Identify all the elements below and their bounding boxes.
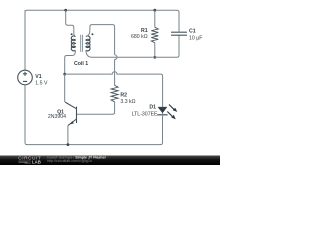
transformer core lines [81,35,83,52]
wire: rail2 from R1 to C1 bottom lead [155,35,179,57]
wire: collector feed from junction down to Q1 [64,74,66,102]
svg-text:10 µF: 10 µF [189,35,202,41]
node: junction rail3 / collector feed [63,73,66,76]
D1 cathode bar [157,114,167,116]
wire: left vertical from top rail to V1 [24,10,26,70]
svg-text:R2: R2 [120,93,127,99]
CircuitLab logo [18,156,41,165]
footer text [47,156,107,164]
wire: vertical hop over rail2 then down to R2 [115,55,117,86]
phase dot left [71,33,73,35]
inductor: transformer left winding [71,36,75,51]
svg-text:3.3 kΩ: 3.3 kΩ [120,99,135,105]
svg-text:V1: V1 [35,74,41,80]
svg-text:680 kΩ: 680 kΩ [131,34,148,40]
D1 emission arrows [167,105,177,120]
wire: D1 mid lead [162,103,164,117]
node: junction top rail / coil left lead [64,9,67,12]
voltage source V1 [18,70,33,85]
node: junction bottom rail / emitter [67,143,70,146]
wire: C1 top lead [178,14,180,32]
svg-text:R1: R1 [141,28,148,34]
wire: top rail from V1 corner to C1 corner [25,10,179,18]
svg-text:2N3904: 2N3904 [48,114,66,120]
wire: coil left top lead [66,10,76,36]
Q1 bar [76,107,78,123]
svg-text:Coil 1: Coil 1 [74,61,88,67]
svg-text:LAB: LAB [32,159,41,164]
capacitor C1 [171,32,187,35]
wire: R1 top lead [154,10,156,27]
Q1 collector diagonal [65,102,76,109]
svg-text:http://circuitlab.com/c/g5g2u: http://circuitlab.com/c/g5g2u [47,159,92,163]
wire: emitter lead down to bottom rail [67,126,69,145]
wire: R1 bottom lead [154,43,156,58]
wire: left vertical from V1 to bottom rail [25,85,27,145]
resistor R1 [151,27,158,42]
wire: rail3 from junction to D1, hops over vertical at x=114.6 [65,72,163,103]
node: junction rail2 / R1 bottom [153,56,156,59]
diode D1 (LED) [158,107,167,113]
resistor R2 [111,85,118,102]
node: junction top rail / R1 top [153,9,156,12]
wire: coil left bottom lead down to rail3 junction [65,50,76,74]
svg-text:1.5 V: 1.5 V [35,80,48,86]
svg-text:D1: D1 [149,104,156,110]
inductor: transformer right winding [86,36,90,51]
Q1 emitter diagonal [68,119,77,126]
wire: bottom rail [27,117,163,145]
svg-text:LTL-307EE: LTL-307EE [132,112,158,118]
phase dot right [91,33,93,35]
wire: R2 bottom lead to Q1 base [77,102,115,115]
wire: coil right top lead [86,25,115,55]
Q1 emitter arrow [70,121,74,124]
transistor Q1 (NPN, mirrored: base on right) [65,102,76,126]
svg-text:C1: C1 [189,29,196,35]
wire: coil right bottom lead joining rail2 [86,50,153,57]
